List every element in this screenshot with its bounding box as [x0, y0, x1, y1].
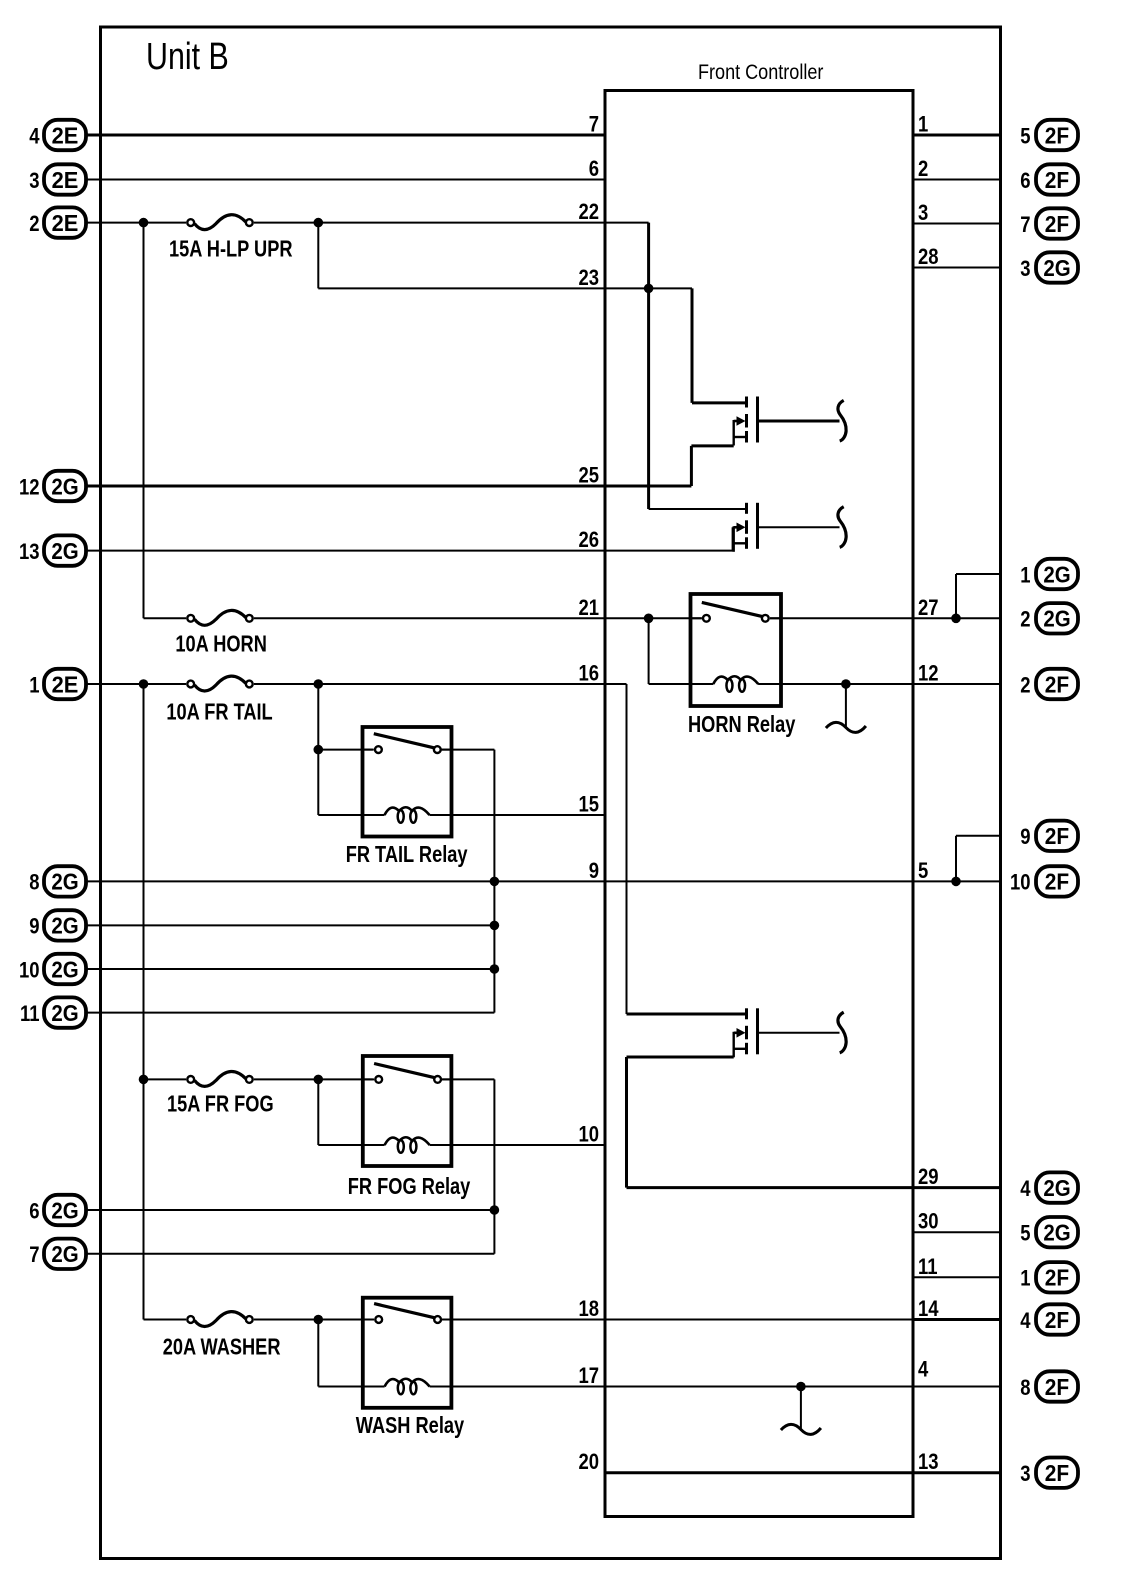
transistor Q2 (H-LP UPR low driver)	[734, 503, 758, 552]
connector 8 (2F) R y=1386.5	[1020, 1371, 1078, 1401]
continuation mark at Q3	[838, 1012, 846, 1053]
svg-text:Unit B: Unit B	[146, 36, 229, 78]
svg-text:6: 6	[589, 158, 599, 182]
ground at HORN relay coil	[826, 684, 866, 732]
wire 9(2F) drop to 10(2F) line	[955, 836, 957, 882]
svg-text:6: 6	[29, 1200, 39, 1224]
wire 1(2G) drop to 2(2G) line	[955, 574, 957, 618]
wire 9(2G) line	[86, 924, 494, 926]
junction 9(2F)/10(2F) tie	[951, 877, 961, 887]
wire fuse F5 to WASH relay	[254, 1319, 373, 1321]
wire FR FOG output drop	[493, 1079, 495, 1253]
svg-text:27: 27	[918, 596, 939, 620]
Front Controller box	[605, 91, 913, 1517]
svg-text:3: 3	[918, 202, 928, 226]
connector 4 (2G) R y=1187.6	[1020, 1172, 1078, 1202]
svg-text:11: 11	[918, 1255, 938, 1279]
wire HORN coil line left	[649, 683, 714, 685]
wire pin 22 drop inside FC	[647, 223, 650, 509]
svg-text:2G: 2G	[51, 1241, 78, 1267]
wire HORN coil to pin 12 / 2(2F)	[758, 683, 1001, 685]
wire Q2 drain horizontal	[649, 508, 745, 510]
wire 10(2G) line	[86, 968, 494, 970]
svg-text:2G: 2G	[1043, 561, 1070, 587]
junction HORN coil tap	[644, 614, 654, 624]
connector 9 (2F) R y=835.8	[1020, 821, 1078, 851]
svg-text:20A WASHER: 20A WASHER	[163, 1335, 281, 1360]
svg-text:16: 16	[578, 662, 599, 686]
connector 9 (2G) L y=925.4	[29, 910, 86, 940]
svg-text:2F: 2F	[1045, 122, 1069, 148]
svg-text:6: 6	[1020, 169, 1030, 193]
junction fuse F3 output tap	[314, 679, 324, 689]
wire WASH coil feed	[318, 1386, 363, 1388]
wire pin 20 / pin 13 to 3(2F)	[605, 1471, 1001, 1474]
svg-text:2: 2	[1020, 608, 1030, 632]
wire Q3 source horizontal	[627, 1056, 734, 1059]
wire branch down to pin 23	[317, 223, 319, 289]
svg-text:5: 5	[1020, 1222, 1030, 1246]
junction FR TAIL contact tap	[314, 745, 324, 755]
svg-text:4: 4	[1020, 1309, 1031, 1333]
svg-text:2F: 2F	[1045, 1265, 1069, 1291]
fuse F1 15A H-LP UPR	[169, 215, 293, 262]
svg-text:10: 10	[1010, 871, 1031, 895]
svg-text:2E: 2E	[52, 123, 79, 149]
wire pin 23 line	[318, 287, 692, 289]
wire Q1 drain horizontal	[692, 401, 745, 404]
wire pin 1 to 5(2F)	[913, 134, 1001, 137]
continuation mark at Q2	[838, 507, 846, 548]
svg-text:7: 7	[589, 113, 599, 137]
wire pin 28 to 3(2G)	[913, 267, 1001, 269]
wire 12(2G) pin 25 line	[86, 485, 691, 488]
connector 3 (2E) L y=179.5	[29, 164, 86, 194]
svg-text:2E: 2E	[52, 672, 79, 698]
wire fuse F3 to pin 16	[254, 683, 605, 685]
connector 1 (2F) R y=1277.3	[1020, 1262, 1078, 1292]
transistor Q3 (FR TAIL driver)	[734, 1008, 758, 1057]
svg-text:2F: 2F	[1045, 1307, 1069, 1333]
svg-text:2F: 2F	[1045, 1374, 1069, 1400]
wire pin 22 inside FC	[605, 222, 649, 224]
wire Q1 gate to continuation	[759, 420, 840, 423]
fuse F5 20A WASHER	[163, 1312, 281, 1361]
relay WASH Relay	[356, 1298, 465, 1439]
connector 12 (2G) L y=486	[19, 471, 86, 501]
connector 6 (2G) L y=1210	[29, 1195, 86, 1225]
connector 4 (2F) R y=1319.5	[1020, 1304, 1078, 1334]
wire 1(2G) stub	[956, 573, 1001, 575]
svg-text:30: 30	[918, 1210, 939, 1234]
junction 1(2G)/2(2G) tie	[951, 614, 961, 624]
relay HORN Relay	[688, 594, 796, 738]
svg-text:Front Controller: Front Controller	[698, 61, 824, 85]
junction FR FOG coil tap	[314, 1075, 324, 1085]
svg-text:21: 21	[578, 596, 599, 620]
svg-text:3: 3	[1020, 1463, 1030, 1487]
wire fuse F2 to feed	[144, 617, 187, 619]
fuse F4 15A FR FOG	[167, 1072, 274, 1118]
svg-text:15A FR FOG: 15A FR FOG	[167, 1092, 274, 1117]
svg-text:11: 11	[20, 1002, 40, 1026]
junction 2E bus tap	[139, 218, 149, 228]
connector 13 (2G) L y=550.6	[19, 535, 86, 565]
ground at pin 4 line	[781, 1387, 821, 1435]
connector 10 (2G) L y=969	[19, 954, 86, 984]
transistor Q1 (H-LP UPR high driver)	[734, 397, 758, 446]
svg-text:2G: 2G	[51, 869, 78, 895]
svg-text:1: 1	[1020, 1267, 1030, 1291]
svg-text:FR FOG Relay: FR FOG Relay	[348, 1174, 471, 1199]
svg-text:10A FR TAIL: 10A FR TAIL	[166, 700, 272, 725]
connector 5 (2F) R y=135	[1020, 120, 1078, 150]
svg-text:13: 13	[19, 540, 40, 564]
svg-text:8: 8	[1020, 1376, 1030, 1400]
svg-text:2: 2	[1020, 674, 1030, 698]
connector 8 (2G) L y=881.4	[29, 866, 86, 896]
wire 3(2E) to pin 6	[86, 179, 605, 181]
junction HORN coil ground tap	[841, 679, 851, 689]
connector 2 (2F) R y=684	[1020, 669, 1078, 699]
wire FR TAIL output drop	[493, 750, 495, 1013]
svg-text:18: 18	[578, 1298, 599, 1322]
junction FR TAIL out / 10(2G)	[490, 964, 500, 974]
wire 10A HORN feed	[143, 223, 145, 619]
svg-text:2G: 2G	[1043, 1219, 1070, 1245]
svg-text:2G: 2G	[51, 1197, 78, 1223]
svg-text:17: 17	[578, 1365, 599, 1389]
svg-text:14: 14	[918, 1298, 939, 1322]
svg-text:HORN Relay: HORN Relay	[688, 712, 796, 737]
svg-text:1: 1	[918, 113, 928, 137]
svg-text:2F: 2F	[1045, 869, 1069, 895]
svg-text:8: 8	[29, 871, 39, 895]
wire Q2 source riser	[732, 527, 734, 550]
svg-text:2G: 2G	[51, 956, 78, 982]
svg-text:7: 7	[29, 1244, 39, 1268]
svg-text:WASH Relay: WASH Relay	[356, 1413, 465, 1438]
wire 4(2E) to pin 7	[86, 134, 605, 137]
svg-text:13: 13	[918, 1451, 939, 1475]
svg-text:2F: 2F	[1045, 167, 1069, 193]
wire pin 3 to 7(2F)	[913, 223, 1001, 225]
connector 6 (2F) R y=179.5	[1020, 164, 1078, 194]
wire FR FOG coil to pin 10	[451, 1144, 605, 1146]
connector 4 (2E) L y=135	[29, 120, 86, 150]
wire Q3 gate to continuation	[759, 1032, 840, 1034]
junction FR FOG bus tap	[139, 1075, 149, 1085]
connector 7 (2G) L y=1253.8	[29, 1239, 86, 1269]
svg-text:2E: 2E	[52, 167, 79, 193]
svg-text:25: 25	[578, 464, 599, 488]
junction FR TAIL out / 8(2G)	[490, 877, 500, 887]
junction WASH coil tap	[314, 1315, 324, 1325]
svg-text:9: 9	[1020, 826, 1030, 850]
svg-text:2F: 2F	[1045, 671, 1069, 697]
svg-text:1: 1	[29, 674, 39, 698]
wire Q3 drain horizontal	[627, 1013, 746, 1016]
wire pin 16 inside FC	[605, 683, 627, 685]
junction pin22/pin23 tie	[644, 284, 654, 294]
wire pin 2 to 6(2F)	[913, 179, 1001, 181]
wire HORN relay contact to 2(2G)	[770, 617, 1001, 619]
wire Q1 source horizontal	[691, 444, 733, 447]
connector 5 (2G) R y=1232.2	[1020, 1217, 1078, 1247]
wire 7(2G) line	[86, 1253, 494, 1255]
wire FR TAIL contact feed	[318, 749, 373, 751]
relay FR TAIL Relay	[346, 727, 468, 868]
svg-text:9: 9	[589, 859, 599, 883]
wire FR FOG contact output	[441, 1078, 494, 1080]
wire 6(2G) line	[86, 1209, 494, 1211]
wire pin 29 to 4(2G)	[627, 1186, 1002, 1189]
svg-text:2F: 2F	[1045, 1460, 1069, 1486]
svg-text:23: 23	[578, 266, 599, 290]
fuse F2 10A HORN	[175, 610, 266, 657]
svg-text:2G: 2G	[51, 473, 78, 499]
wire 1(2E) to fuse F3	[86, 683, 186, 685]
wire pin 16 drop inside FC	[626, 684, 628, 1014]
wire 2(2E) to fuse F1	[86, 222, 186, 224]
wire FR TAIL branch drop	[317, 684, 319, 815]
svg-text:3: 3	[1020, 257, 1030, 281]
svg-text:2G: 2G	[1043, 605, 1070, 631]
wire Q3 source drop	[625, 1057, 628, 1188]
relay FR FOG Relay	[348, 1056, 471, 1200]
wire FR TAIL contact output	[441, 749, 494, 751]
wire 11(2G) line	[86, 1012, 494, 1014]
wire WASH coil pin17/pin4 to 8(2F)	[451, 1386, 1001, 1388]
wire pin 14 to 4(2F)	[913, 1318, 1001, 1321]
svg-text:4: 4	[29, 125, 40, 149]
svg-text:22: 22	[578, 201, 599, 225]
junction FR FOG out / 6(2G)	[490, 1205, 500, 1215]
svg-text:26: 26	[578, 529, 599, 553]
svg-text:10: 10	[19, 959, 40, 983]
connector 3 (2F) R y=1472.7	[1020, 1458, 1078, 1488]
connector 2 (2E) L y=222.6	[29, 207, 86, 237]
svg-text:2E: 2E	[52, 210, 79, 236]
connector 11 (2G) L y=1012.6	[20, 997, 86, 1027]
connector 1 (2E) L y=684	[29, 669, 86, 699]
wire FR FOG coil feed	[318, 1144, 363, 1146]
connector 1 (2G) R y=574	[1020, 559, 1078, 589]
connector 7 (2F) R y=223.5	[1020, 208, 1078, 238]
junction fuse F1 output tap	[314, 218, 324, 228]
wire bus to fuse F4	[144, 1078, 187, 1080]
svg-text:10A HORN: 10A HORN	[175, 632, 266, 657]
connector 2 (2G) R y=618.3	[1020, 603, 1078, 633]
connector 3 (2G) R y=267.5	[1020, 252, 1078, 282]
wire pin 11 to 1(2F)	[913, 1276, 1001, 1278]
svg-text:1: 1	[1020, 564, 1030, 588]
wire Q1 source drop to pin 25	[690, 446, 693, 486]
wire fuse F4 to FR FOG relay	[254, 1078, 373, 1080]
svg-text:4: 4	[918, 1358, 929, 1382]
svg-text:2G: 2G	[1043, 255, 1070, 281]
svg-text:12: 12	[19, 476, 40, 500]
svg-text:4: 4	[1020, 1177, 1031, 1201]
wire FR TAIL coil feed	[318, 814, 362, 816]
svg-text:28: 28	[918, 246, 939, 270]
wire HORN coil feed drop	[648, 618, 650, 684]
svg-text:2F: 2F	[1045, 823, 1069, 849]
wire fuse F1 to pin 22	[254, 222, 605, 224]
wire pin 30 to 5(2G)	[913, 1231, 1001, 1233]
svg-text:5: 5	[1020, 125, 1030, 149]
svg-text:15A H-LP UPR: 15A H-LP UPR	[169, 237, 293, 262]
wire Q2 gate to continuation	[759, 526, 840, 528]
svg-text:FR TAIL Relay: FR TAIL Relay	[346, 842, 468, 867]
svg-text:20: 20	[578, 1451, 599, 1475]
junction FR TAIL out / 9(2G)	[490, 921, 500, 931]
svg-text:12: 12	[918, 662, 939, 686]
svg-text:2G: 2G	[1043, 1175, 1070, 1201]
svg-text:15: 15	[578, 793, 599, 817]
continuation mark at Q1	[838, 400, 846, 441]
svg-text:9: 9	[29, 915, 39, 939]
svg-text:2G: 2G	[51, 538, 78, 564]
wire FR FOG feed bus	[143, 684, 145, 1320]
junction 1(2E) bus tap	[139, 679, 149, 689]
Unit B enclosure box	[101, 27, 1001, 1559]
wire fuse F2 to HORN relay	[254, 617, 702, 619]
wire bus to fuse F5	[144, 1319, 187, 1321]
wire 8(2G) pin9/pin5 10(2F) line	[86, 880, 1001, 882]
svg-text:29: 29	[918, 1166, 939, 1190]
svg-text:2G: 2G	[51, 913, 78, 939]
svg-text:7: 7	[1020, 213, 1030, 237]
wire 9(2F) stub	[956, 835, 1001, 837]
wire FR FOG coil drop	[317, 1079, 319, 1145]
svg-text:10: 10	[578, 1123, 599, 1147]
fuse F3 10A FR TAIL	[166, 676, 272, 725]
wire WASH coil drop	[317, 1320, 319, 1387]
wire Q1 drain feed vertical	[691, 288, 694, 403]
svg-text:3: 3	[29, 169, 39, 193]
wire 13(2G) pin 26 line	[86, 550, 733, 552]
svg-text:2G: 2G	[51, 1000, 78, 1026]
junction pin 4 ground tap	[796, 1382, 806, 1392]
svg-text:5: 5	[918, 859, 928, 883]
wire WASH relay out pin18/pin14	[441, 1319, 913, 1321]
svg-text:2F: 2F	[1045, 211, 1069, 237]
svg-text:2: 2	[29, 212, 39, 236]
wire FR TAIL coil to pin 15	[452, 814, 606, 816]
svg-text:2: 2	[918, 158, 928, 182]
connector 10 (2F) R y=881.4	[1010, 866, 1078, 896]
